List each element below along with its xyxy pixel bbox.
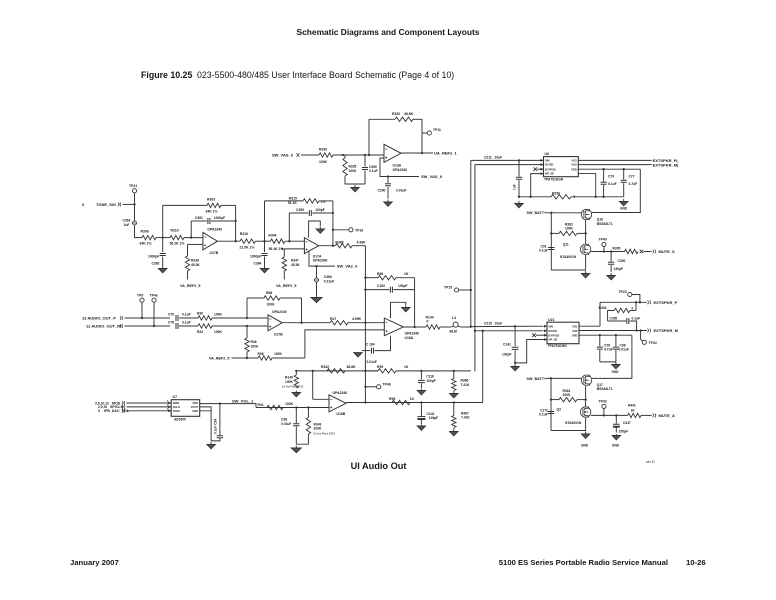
test point TP24 (642, 340, 646, 344)
svg-text:100K: 100K (565, 227, 574, 231)
test point TP41 (132, 189, 136, 193)
wire U6 hp sense right (578, 174, 595, 197)
node C212 bus junction (518, 196, 520, 198)
svg-text:R320: R320 (392, 112, 400, 116)
svg-text:1K: 1K (404, 272, 409, 276)
test point TP15 (454, 288, 458, 292)
node C142 junction (420, 401, 422, 403)
svg-text:SW_BATT+: SW_BATT+ (527, 211, 547, 215)
svg-text:rev D: rev D (646, 460, 655, 464)
resistor R366 (452, 379, 456, 391)
svg-text:C211: C211 (484, 155, 492, 159)
transistor Q3 (580, 406, 590, 417)
svg-text:EXTSPKR_M(: EXTSPKR_M( (653, 163, 679, 168)
wire R404 to C350 (608, 311, 615, 322)
C361 loop wire right (211, 220, 236, 222)
svg-text:C300: C300 (618, 259, 626, 263)
svg-text:R342: R342 (321, 365, 329, 369)
node hp bus junction (595, 196, 597, 198)
wire R382 left (551, 232, 559, 234)
resistor R306 (142, 235, 156, 239)
svg-text:100K: 100K (267, 303, 276, 307)
capacitor C172 (548, 412, 554, 414)
svg-text:0.1uF: 0.1uF (539, 249, 548, 253)
svg-text:R310: R310 (171, 229, 179, 233)
wire U7 out row (200, 403, 220, 405)
wire C142 top (420, 403, 422, 417)
svg-text:R99: R99 (377, 365, 383, 369)
U16B fb row (296, 370, 378, 372)
capacitor C38 (293, 424, 299, 426)
node C116 junction (420, 370, 422, 372)
wire R344 to U17A (285, 240, 304, 242)
svg-text:1uF: 1uF (513, 184, 517, 190)
node main audio junction (470, 325, 472, 327)
wire mute riser x482 (482, 331, 484, 403)
inductor L4 (451, 322, 461, 327)
C365 loop wire (289, 212, 308, 214)
wire C212 bottom (518, 180, 520, 197)
pin arrow U6 BYPASS (541, 168, 544, 171)
node TP40 junction (603, 250, 605, 252)
capacitor C350 (627, 318, 629, 324)
resistor R346 (335, 244, 352, 248)
capacitor C75 (176, 323, 178, 329)
svg-text:34K 1%: 34K 1% (140, 242, 152, 246)
wire R343 bottom (296, 434, 308, 444)
svg-text:10uF: 10uF (495, 321, 503, 325)
svg-text:TP40: TP40 (599, 238, 607, 242)
wire C75 to R33 (179, 325, 198, 327)
wire main mix vertical (364, 246, 366, 403)
node C365 right junction (332, 212, 334, 214)
pin arrow U21 DCSD (544, 329, 547, 332)
svg-text:100pF: 100pF (429, 416, 439, 420)
wire C78 top (599, 335, 601, 346)
resistor R342 (327, 369, 345, 373)
svg-text:R41: R41 (258, 403, 264, 407)
node R366 junction (453, 370, 455, 372)
svg-text:R344: R344 (268, 234, 276, 238)
svg-text:48.8K: 48.8K (404, 112, 414, 116)
wire SYNC to U7 (127, 410, 172, 412)
svg-text:C 164: C 164 (366, 342, 375, 346)
svg-text:OPA2340: OPA2340 (313, 259, 328, 263)
U18A vplus gnd loop (391, 302, 406, 318)
svg-text:51.1K: 51.1K (288, 201, 298, 205)
op-amp U17A (304, 238, 318, 254)
svg-text:0.01uF: 0.01uF (281, 422, 291, 426)
svg-text:Do Not Place E342: Do Not Place E342 (314, 433, 336, 436)
capacitor C79 (601, 182, 607, 184)
wire U6 bypass stub (537, 168, 543, 170)
wire C98 top (615, 335, 617, 346)
wire C163 right (393, 289, 414, 291)
svg-text:130pF: 130pF (614, 267, 624, 271)
svg-text:1000pF: 1000pF (214, 216, 225, 220)
wire C383 bottom (162, 257, 164, 267)
connector AUDIO_OUT_M (120, 324, 123, 328)
wire TP42 stub (603, 409, 605, 416)
svg-text:C290: C290 (378, 189, 386, 193)
resistor R41 (267, 405, 283, 409)
wire extspkr_p row (600, 301, 647, 303)
resistor R396 (551, 195, 571, 199)
svg-text:Schematic Diagrams and Compone: Schematic Diagrams and Component Layouts (297, 27, 480, 37)
U17B2 feedback top (247, 297, 264, 299)
svg-text:C163: C163 (377, 284, 385, 288)
no-connect X U6 (534, 167, 538, 171)
svg-text:U6: U6 (545, 152, 550, 156)
node C141 bottom junction (514, 362, 516, 364)
node R361 left junction (550, 398, 552, 400)
svg-text:VA_REF2_5: VA_REF2_5 (276, 284, 296, 288)
wire C347 bottom (615, 428, 617, 433)
wire U6 vo2 long (578, 164, 651, 166)
wire audio M in (125, 325, 171, 327)
wire Q3 bottom (551, 418, 586, 431)
ground C366 (311, 295, 322, 303)
svg-text:100pF: 100pF (426, 379, 436, 383)
svg-text:SW_VAS_0: SW_VAS_0 (272, 153, 294, 158)
node R382 left junction (550, 232, 552, 234)
capacitor C366 (314, 278, 319, 282)
svg-text:R346: R346 (335, 240, 343, 244)
pin arrow U7 SDIN (168, 402, 171, 405)
wire U16B out row (346, 402, 483, 404)
ground U7 (207, 442, 215, 449)
ground C78 C98 (612, 362, 620, 369)
svg-text:100K: 100K (349, 169, 358, 173)
resistor R310 (170, 235, 184, 239)
svg-text:VOUT: VOUT (191, 405, 199, 409)
wire row3 left (365, 370, 378, 372)
wire C78 bottom (599, 350, 601, 362)
wire TP9 stub (141, 302, 143, 318)
svg-text:C366: C366 (324, 275, 332, 279)
svg-text:0.1uF: 0.1uF (369, 169, 378, 173)
node row2 P junction (246, 317, 248, 319)
wire U17A vout net stub (309, 251, 335, 267)
svg-text:VIN: VIN (545, 159, 550, 163)
wire R346 to main vertical (352, 245, 365, 247)
ground C383 (159, 266, 167, 273)
no-connect X U21 (532, 333, 536, 337)
wire U21 dcsd row (475, 330, 544, 332)
svg-text:10uF: 10uF (495, 155, 503, 159)
pin arrow U7 SCLK (168, 406, 171, 409)
svg-text:R441: R441 (628, 403, 636, 407)
resistor R99 (378, 369, 396, 373)
resistor R347 (282, 257, 286, 271)
node junction feedback left (368, 154, 370, 156)
wire Q17 to Q3 (585, 386, 587, 407)
wire C78 C98 bus (600, 361, 616, 363)
capacitor C142 plate a (417, 417, 425, 419)
wire U18A vminus stub (375, 336, 391, 351)
node row2 M junction (246, 325, 248, 327)
transistor Q16 (581, 209, 591, 220)
svg-text:DC/SD: DC/SD (549, 329, 557, 333)
wire C384 stub (264, 241, 266, 252)
wire varef row right (272, 357, 305, 359)
node main vert TP46 tap (364, 386, 366, 388)
svg-text:VO1: VO1 (571, 159, 577, 163)
pin arrow U21 BYPASS (544, 334, 547, 337)
wire U17B noninv (188, 243, 203, 245)
svg-text:U17B: U17B (274, 333, 283, 337)
svg-text:HP_SE: HP_SE (549, 338, 558, 342)
node swbatt junction (550, 212, 552, 214)
svg-text:R98: R98 (258, 352, 264, 356)
svg-text:100pF: 100pF (315, 208, 325, 212)
wire C366 top (316, 266, 318, 278)
wire U13A inv loop (380, 158, 419, 177)
svg-text:C76: C76 (168, 312, 174, 316)
IC U6 TPA751 (544, 157, 579, 177)
C365 loop right (312, 212, 333, 214)
svg-text:C215: C215 (484, 321, 492, 325)
svg-text:DC/SD: DC/SD (545, 163, 553, 167)
svg-text:0.21uF: 0.21uF (324, 280, 334, 284)
node U6 bypass bus junction (530, 196, 532, 198)
wire R361 left (551, 399, 559, 401)
svg-text:EXTSPKR_M: EXTSPKR_M (654, 328, 679, 333)
resistor R95 (392, 400, 410, 404)
svg-text:9: 9 (98, 409, 100, 413)
wire bypass bus (519, 196, 551, 198)
wire R366 top (453, 371, 455, 379)
node TP4a junction (153, 325, 155, 327)
wire C363 top (134, 204, 136, 221)
node junction C360 (364, 154, 366, 156)
capacitor C77 (621, 180, 627, 182)
wire TP16 stub (333, 229, 349, 231)
wire C34 top (219, 404, 221, 436)
svg-text:R46: R46 (251, 340, 257, 344)
capacitor C384 (262, 254, 268, 256)
svg-text:C384: C384 (254, 262, 262, 266)
svg-text:0.01uF: 0.01uF (619, 348, 629, 352)
capacitor C91 (548, 248, 554, 250)
U17B2 feedback right (280, 297, 302, 299)
wire C38 top (295, 408, 297, 424)
capacitor C347 plate bold (613, 426, 620, 428)
wire TP15 stub (459, 289, 471, 291)
wire mix inv input (365, 322, 384, 324)
wire U17B2 out row (282, 322, 330, 324)
wire R328 C360 gnd bus (345, 176, 365, 184)
wire U6 vdd row (578, 168, 640, 170)
wire C290 top (387, 177, 389, 184)
svg-text:C360: C360 (369, 165, 377, 169)
svg-text:4.7uF: 4.7uF (604, 348, 613, 352)
test point TP16 (349, 228, 353, 232)
svg-text:150pF: 150pF (619, 429, 629, 433)
svg-text:0.1uF: 0.1uF (608, 182, 617, 186)
svg-text:R330: R330 (319, 148, 327, 152)
node TP9 junction (141, 317, 143, 319)
wire TP11 stub (422, 132, 427, 134)
svg-text:GND: GND (192, 409, 198, 413)
node U17A noninv dot (281, 248, 283, 250)
capacitor C383 (160, 254, 166, 256)
svg-text:SYNC: SYNC (173, 409, 181, 413)
wire C79 bottom (603, 185, 605, 197)
wire C360 top (364, 155, 366, 167)
svg-text:AD5300: AD5300 (174, 418, 186, 422)
connector SW_VAS_0 (297, 153, 300, 157)
svg-text:R305: R305 (613, 246, 621, 250)
transistor Q11 (580, 244, 590, 255)
node C77 top junction (623, 168, 625, 170)
ground C290 (384, 200, 392, 207)
node U17A out junction (332, 245, 334, 247)
svg-text:SW_BATT+: SW_BATT+ (527, 377, 547, 381)
svg-text:SDIN: SDIN (173, 401, 179, 405)
wire mute_s row (591, 251, 625, 253)
node C300 junction (610, 250, 612, 252)
wire R404 right stub (630, 310, 636, 312)
capacitor C164 (372, 348, 374, 354)
svg-text:1K: 1K (410, 397, 415, 401)
svg-text:January 2007: January 2007 (70, 558, 119, 567)
svg-text:TP23: TP23 (619, 290, 627, 294)
svg-text:45.3K: 45.3K (191, 263, 200, 267)
test point TP4a (152, 298, 156, 302)
resistor R441 (628, 413, 641, 417)
wire to MUTE_S conn (644, 251, 652, 253)
svg-text:MUTE_A: MUTE_A (659, 413, 676, 418)
wire C77 top (623, 169, 625, 179)
svg-text:SW_VA2_0: SW_VA2_0 (337, 264, 358, 269)
ground C300 (607, 273, 615, 280)
wire vdd down right (592, 169, 640, 212)
wire U17A noninv (284, 248, 304, 250)
ground R366 (450, 391, 458, 398)
svg-text:VO1: VO1 (572, 324, 578, 328)
svg-text:U18A: U18A (405, 336, 414, 340)
wire U21 hp loop (515, 340, 547, 363)
node TP16 junction (332, 229, 334, 231)
transistor Q17 (581, 375, 591, 386)
node main vert row3 tap (364, 370, 366, 372)
svg-text:TP46: TP46 (383, 382, 391, 386)
wire C363 to row1 (135, 225, 143, 238)
resistor R46 (245, 338, 249, 352)
wire R30 to U17B2 (212, 317, 268, 319)
wire R338 top (187, 244, 189, 256)
svg-text:C38: C38 (281, 417, 287, 421)
svg-text:VA_REF2_5: VA_REF2_5 (209, 357, 229, 361)
wire R66 left (365, 277, 378, 279)
wire C360 bottom (364, 171, 366, 185)
resistor R344 (271, 239, 286, 243)
node C366 junction (315, 265, 317, 267)
wire U21 vo2 long (579, 330, 647, 332)
svg-text:VDD: VDD (193, 401, 199, 405)
wire MOD to U7 (127, 402, 172, 404)
resistor R66 fb U18A (378, 276, 396, 280)
svg-text:OPA2340: OPA2340 (272, 310, 287, 314)
node V2 U21 tap (474, 330, 476, 332)
ground Q3 (581, 432, 589, 439)
wire R367 top (453, 403, 455, 416)
op-amp U13A (384, 144, 401, 162)
wire C366 bottom (316, 282, 318, 295)
node R367 junction (453, 401, 455, 403)
svg-text:BSS84LT1: BSS84LT1 (597, 387, 613, 391)
wire R316 to R344 (256, 240, 271, 242)
ground U6 bypass (515, 201, 523, 208)
wire varef row (232, 357, 259, 359)
svg-text:R338: R338 (191, 259, 199, 263)
resistor R382 (559, 231, 577, 235)
capacitor C116 (418, 380, 425, 382)
test point TP23 (628, 292, 632, 296)
svg-text:U17B: U17B (210, 251, 219, 255)
wire C141 bottom (514, 350, 516, 363)
capacitor C212 (516, 177, 522, 179)
U17A feedback top right (319, 200, 333, 202)
svg-text:R33: R33 (197, 330, 203, 334)
svg-text:MUTE_S: MUTE_S (659, 249, 676, 254)
svg-text:C77: C77 (629, 175, 635, 179)
test point TP9 (140, 298, 144, 302)
ground U17A supply (316, 227, 324, 233)
node C98 top junction (615, 334, 617, 336)
svg-text:4.7uF: 4.7uF (629, 182, 638, 186)
svg-text:100K: 100K (285, 380, 294, 384)
wire C98 bottom (615, 350, 617, 362)
svg-text:0: 0 (632, 307, 634, 311)
ground U18A supply (402, 306, 410, 312)
capacitor C141 (512, 347, 519, 349)
U17B2 feedback left vertical (246, 298, 248, 318)
resistor R47 (330, 321, 348, 325)
node U18A out junction (413, 326, 415, 328)
svg-text:VIN: VIN (549, 324, 554, 328)
U17A feedback right vertical (332, 201, 334, 246)
C361 loop left vertical (190, 221, 192, 238)
ground C347 (612, 434, 620, 440)
test point TP46 (377, 385, 381, 389)
svg-text:VA_REF2_5: VA_REF2_5 (180, 284, 200, 288)
wire R343 top (307, 408, 309, 418)
svg-text:VO2: VO2 (571, 163, 577, 167)
svg-text:NTA4001N: NTA4001N (565, 421, 582, 425)
svg-text:U16B: U16B (337, 412, 346, 416)
ground C116 (417, 389, 425, 395)
capacitor C360 (362, 168, 368, 170)
svg-text:0.1uF: 0.1uF (632, 316, 641, 320)
wire TP24 bend (641, 331, 643, 342)
wire C116 bottom (420, 384, 422, 389)
svg-text:7.41K: 7.41K (461, 416, 470, 420)
svg-text:IFB_DAC_VOL: IFB_DAC_VOL (104, 409, 130, 413)
ground C142 (417, 425, 425, 431)
wire C384 bottom (264, 257, 266, 267)
svg-text:Q3: Q3 (557, 408, 562, 412)
wire R46 bottom (246, 352, 248, 358)
wire U18A out (403, 326, 426, 328)
wire bus right (571, 196, 624, 198)
svg-text:R47: R47 (330, 317, 336, 321)
U17B feedback right vertical (235, 205, 237, 240)
U17A feedback left vertical (264, 201, 266, 241)
svg-text:OPA2340: OPA2340 (207, 228, 222, 232)
svg-text:21.5K 1%: 21.5K 1% (240, 246, 255, 250)
